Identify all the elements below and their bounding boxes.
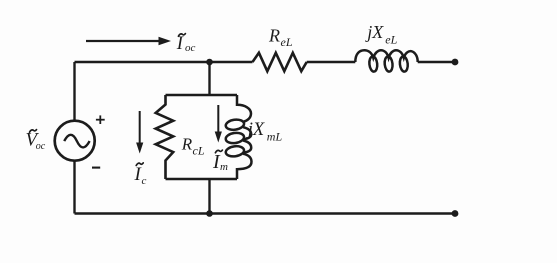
inductor jXmL top lead and hook — [237, 95, 251, 122]
inductor jXeL loop 1 — [369, 56, 378, 72]
resistor ReL — [253, 53, 307, 71]
label Im — [212, 150, 228, 173]
inductor jXmL connector 2 — [243, 141, 251, 153]
inductor jXeL loop 3 — [399, 56, 408, 72]
wire left vertical upper (source top lead) — [73, 62, 75, 121]
inductor jXmL bottom hook and lead — [237, 154, 252, 179]
svg-text:m: m — [220, 161, 228, 173]
source plus sign — [96, 115, 105, 124]
inductor jXeL loop 2 — [384, 56, 393, 72]
svg-text:R: R — [268, 26, 280, 46]
inductor jXmL loop 2 — [225, 132, 245, 144]
source Voc circle — [55, 121, 95, 161]
svg-text:oc: oc — [185, 42, 196, 54]
inductor jXmL connector 1 — [243, 127, 251, 139]
node junction dot top — [206, 59, 213, 66]
svg-text:R: R — [181, 134, 193, 153]
inductor jXmL loop 1 — [225, 118, 245, 130]
node terminal dot top right — [452, 59, 459, 66]
svg-text:eL: eL — [281, 35, 293, 49]
wire top rail between resistor and inductor — [307, 61, 356, 63]
wire center vertical lower (box bottom to bottom rail) — [208, 179, 210, 214]
wire top rail left segment — [75, 61, 253, 63]
arrow Ic current — [136, 111, 143, 154]
wire box top bar — [166, 94, 238, 96]
svg-text:mL: mL — [267, 129, 283, 143]
inductor jXmL loop 3 — [225, 145, 245, 157]
wire left vertical lower (source bottom lead) — [73, 161, 75, 214]
svg-text:oc: oc — [36, 141, 46, 152]
label Voc source — [26, 129, 46, 152]
resistor RcL — [156, 95, 174, 179]
label ReL — [268, 26, 293, 49]
wire center vertical upper (junction to box top) — [208, 62, 210, 95]
svg-text:c: c — [142, 175, 147, 187]
node terminal dot bottom right — [452, 210, 459, 217]
wire box bottom bar — [166, 178, 238, 180]
arrow Im current — [215, 105, 222, 143]
svg-text:jX: jX — [365, 22, 384, 42]
arrow Ioc current direction — [86, 37, 171, 45]
svg-text:cL: cL — [193, 144, 205, 158]
label Ic — [134, 163, 147, 187]
inductor jXeL humps — [355, 50, 417, 62]
label jXmL — [246, 120, 283, 144]
label RcL — [181, 134, 205, 157]
source minus sign — [92, 167, 100, 169]
label Ioc — [176, 34, 196, 55]
label jXeL — [365, 22, 397, 47]
svg-text:eL: eL — [385, 33, 397, 47]
node junction dot bottom — [206, 210, 213, 217]
svg-text:I: I — [176, 34, 184, 54]
svg-text:jX: jX — [246, 120, 265, 140]
wire bottom rail — [75, 212, 456, 214]
wire top rail right segment to terminal — [418, 61, 455, 63]
source sine wave — [64, 135, 89, 148]
